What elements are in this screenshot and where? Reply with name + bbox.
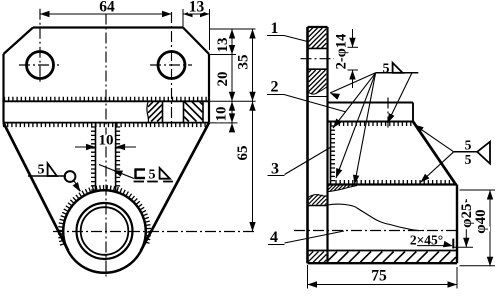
svg-text:1: 1 bbox=[271, 20, 279, 37]
svg-text:20: 20 bbox=[215, 72, 231, 87]
svg-text:65: 65 bbox=[235, 146, 251, 161]
svg-text:5: 5 bbox=[383, 62, 390, 77]
svg-text:35: 35 bbox=[236, 55, 252, 70]
svg-text:φ40: φ40 bbox=[473, 209, 489, 233]
svg-text:4: 4 bbox=[270, 229, 278, 246]
svg-text:10: 10 bbox=[99, 133, 114, 149]
svg-text:2: 2 bbox=[271, 79, 279, 96]
svg-text:5: 5 bbox=[465, 137, 472, 152]
svg-text:10: 10 bbox=[214, 107, 230, 122]
svg-text:75: 75 bbox=[371, 268, 387, 285]
svg-text:2-φ14: 2-φ14 bbox=[334, 34, 350, 70]
svg-text:5: 5 bbox=[149, 168, 156, 183]
svg-text:5: 5 bbox=[465, 152, 472, 167]
svg-text:5: 5 bbox=[38, 163, 45, 178]
svg-text:13: 13 bbox=[215, 38, 231, 53]
svg-text:64: 64 bbox=[99, 0, 115, 16]
svg-text:13: 13 bbox=[189, 0, 205, 16]
